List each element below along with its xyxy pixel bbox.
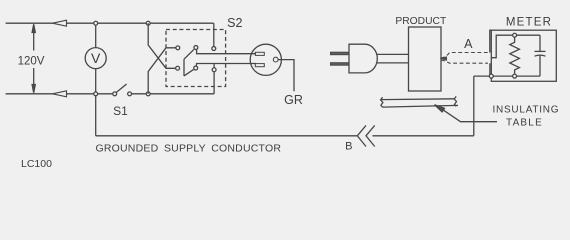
dimension line 120V xyxy=(33,27,35,51)
S2 blade bottom pole xyxy=(184,69,194,76)
switch S2 dashed enclosure xyxy=(166,30,226,87)
svg-text:V: V xyxy=(91,50,101,66)
leader arrow to table xyxy=(435,105,445,112)
svg-text:INSULATING: INSULATING xyxy=(493,105,560,116)
arrow top-left open arrowhead xyxy=(53,20,67,26)
product box xyxy=(409,27,442,91)
svg-text:TABLE: TABLE xyxy=(506,117,543,128)
meter inner top wire xyxy=(491,35,540,58)
receptacle ground hole xyxy=(273,57,278,62)
wire descender to grounded conductor xyxy=(95,94,97,136)
svg-text:LC100: LC100 xyxy=(21,158,52,170)
svg-text:GROUNDED SUPPLY CONDUCTOR: GROUNDED SUPPLY CONDUCTOR xyxy=(96,143,282,155)
node resistor top xyxy=(513,33,517,37)
node top wire at voltmeter xyxy=(94,21,98,25)
wire mid-bottom terminal to receptacle (bottom) xyxy=(197,64,257,66)
S2 terminal left-bottom xyxy=(176,66,180,70)
svg-text:GR: GR xyxy=(284,93,303,107)
wire grounded supply conductor (right of break) xyxy=(373,135,474,137)
node bottom wire at voltmeter xyxy=(94,92,98,96)
wire crossover from top node xyxy=(148,23,175,68)
wire top supply conductor xyxy=(6,22,214,24)
node meter input B xyxy=(489,74,493,78)
receptacle outlet face xyxy=(250,44,281,75)
wire crossover from bottom node xyxy=(148,48,175,94)
S2 terminal right-top xyxy=(212,47,216,51)
wire bottom supply conductor (right of S1) xyxy=(132,93,214,95)
probe lead A top (dashed) xyxy=(441,53,490,59)
S2 blade link bar xyxy=(183,59,185,76)
cord line bottom xyxy=(377,62,409,64)
receptacle slot top xyxy=(255,52,264,55)
probe tip arrow at product xyxy=(440,57,447,61)
probe lead A bottom drop to node xyxy=(490,63,491,76)
switch S1 xyxy=(113,92,117,96)
capacitor C1 xyxy=(539,35,541,51)
wire bottom supply conductor (left of S1) xyxy=(6,93,113,95)
plug prong top xyxy=(331,52,350,55)
wire B descender xyxy=(473,76,475,136)
probe lead A bottom (dashed) xyxy=(441,60,488,63)
meter box xyxy=(491,30,556,81)
plug body xyxy=(349,44,377,73)
S2 terminal mid-bottom xyxy=(194,66,198,70)
break chevron 2 xyxy=(366,125,375,146)
node bottom wire at crossover xyxy=(146,92,150,96)
probe lead A top riser xyxy=(490,30,492,52)
wire ground hole to GR xyxy=(278,60,294,92)
wire right-top terminal to top bus xyxy=(213,23,215,46)
cord line top xyxy=(377,53,409,55)
wire right-bottom terminal to bottom supply xyxy=(213,72,215,94)
S2 terminal right-bottom xyxy=(212,68,216,72)
svg-text:PRODUCT: PRODUCT xyxy=(395,16,447,27)
node resistor bottom xyxy=(513,74,517,78)
svg-text:S1: S1 xyxy=(113,104,128,118)
meter inner bottom wire xyxy=(474,75,540,77)
wire voltmeter bus upper xyxy=(95,23,97,47)
wire right-bottom terminal up to receptacle bottom wire xyxy=(213,64,215,68)
insulating table slab xyxy=(381,98,455,101)
voltmeter V1 xyxy=(85,48,106,69)
svg-text:120V: 120V xyxy=(18,55,45,67)
svg-text:S2: S2 xyxy=(227,16,242,30)
S2 terminal mid-top xyxy=(194,46,198,50)
svg-text:A: A xyxy=(464,37,473,51)
plug prong bottom xyxy=(331,63,350,65)
wire voltmeter bus lower xyxy=(95,69,97,94)
S2 blade top pole xyxy=(184,49,194,59)
wire mid-top terminal to receptacle (top) xyxy=(197,50,256,54)
svg-text:B: B xyxy=(345,141,352,153)
receptacle slot bottom xyxy=(255,64,264,67)
svg-text:METER: METER xyxy=(506,17,552,29)
arrow bottom-left open arrowhead xyxy=(53,91,67,97)
S2 terminal left-top xyxy=(176,46,180,50)
wire grounded supply conductor (left of break) xyxy=(96,135,358,137)
break chevron 1 xyxy=(357,125,366,146)
resistor R1 xyxy=(510,38,520,74)
node top wire at crossover xyxy=(146,21,150,25)
